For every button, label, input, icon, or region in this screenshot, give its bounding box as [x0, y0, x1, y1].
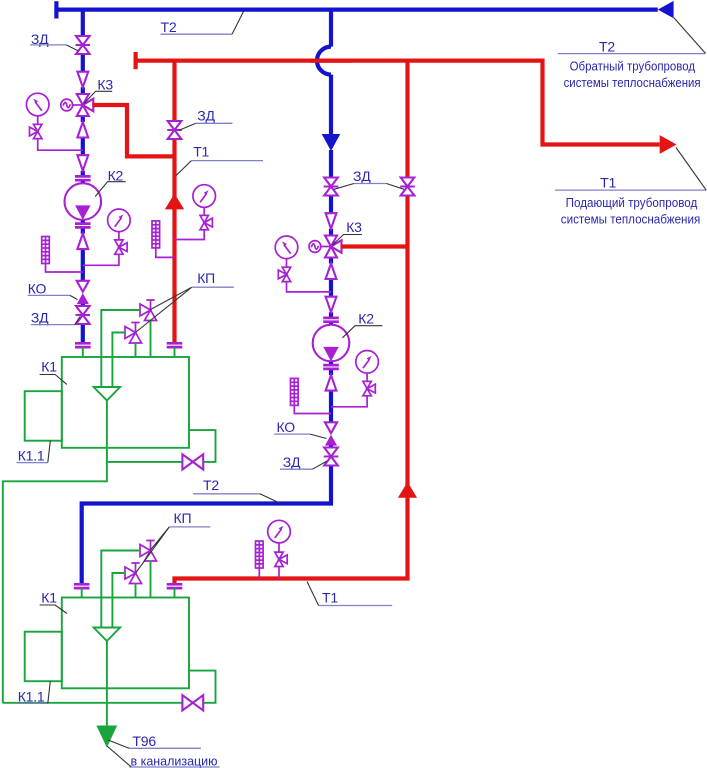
pressure gauge at K3 (left)	[26, 93, 49, 116]
KP2 discharge stub (upper)	[135, 343, 137, 357]
overflow pipe from upper tank right side	[107, 430, 216, 462]
pipe T1 main header (red)	[136, 59, 660, 145]
check valve KO (left)	[77, 281, 89, 304]
green stub below red flange into lower tank	[174, 588, 176, 598]
svg-text:К3: К3	[346, 219, 362, 235]
flange at lower tank inlet (red)	[167, 584, 183, 588]
funnel drain drop pipe (lower)	[106, 641, 108, 726]
svg-text:К1.1: К1.1	[18, 688, 45, 704]
drain valve (lower)	[182, 695, 203, 710]
thermometer on lower red line	[255, 541, 263, 568]
gauge stem (middle K3)	[286, 258, 288, 267]
gauge cock (lower red)	[275, 552, 287, 566]
green stub below red flange into upper tank	[174, 347, 176, 357]
drain funnel in upper tank	[94, 387, 121, 401]
flange below pump K2 (middle)	[323, 365, 339, 369]
thermometer at pump K2 (middle)	[291, 378, 299, 405]
KP2 discharge stub (lower)	[135, 584, 137, 598]
svg-text:ЗД: ЗД	[31, 310, 49, 326]
svg-text:Т2: Т2	[161, 19, 177, 35]
svg-text:ЗД: ЗД	[283, 454, 301, 470]
flange at upper tank inlet (red)	[167, 343, 183, 347]
KP1 inlet pipe and funnel riser (lower)	[101, 551, 140, 628]
safety valve KP no.2 (lower)	[125, 563, 142, 584]
flange above pump K2 (left)	[75, 176, 91, 180]
overflow pipe from lower tank right side	[3, 671, 216, 703]
valve ZD (gate) on red riser (middle)	[400, 178, 415, 196]
red link from K3 (middle) to red riser	[341, 244, 408, 248]
wire: middle blue riser segments	[82, 75, 333, 585]
svg-text:Т1: Т1	[193, 144, 209, 160]
electric actuator of K3 (middle)	[309, 241, 331, 253]
svg-text:Подающий трубопровод: Подающий трубопровод	[566, 195, 698, 210]
gauge stem (red riser)	[203, 207, 205, 215]
safety valve KP no.1 (lower)	[140, 541, 157, 562]
flow arrow on T2 main (points left)	[658, 1, 674, 18]
gauge cock (left pump)	[115, 240, 127, 254]
drain valve (upper)	[182, 454, 203, 469]
wire: red riser T1 segments (x=174.5)	[172, 61, 176, 344]
three-way valve K3 (middle)	[325, 236, 342, 258]
svg-text:К3: К3	[97, 76, 113, 92]
pressure gauge at pump K2 (middle)	[356, 351, 379, 374]
svg-text:К1: К1	[41, 589, 57, 605]
flow arrow up on red riser (middle)	[398, 482, 417, 498]
electric actuator of K3 (left)	[61, 99, 83, 111]
reducer cone below K3 (middle)	[326, 264, 337, 280]
impulse line from gauge to red riser	[175, 230, 205, 240]
gauge stem (middle pump)	[366, 373, 368, 382]
flange at lower tank inlet (blue)	[74, 584, 90, 588]
three-way valve K3 (left)	[77, 94, 94, 116]
svg-text:Т1: Т1	[600, 174, 616, 190]
flow arrow on T1 main (points right)	[660, 135, 677, 154]
T1 main re-stroked over crossing hop	[310, 58, 352, 62]
svg-text:КО: КО	[28, 280, 47, 296]
gauge cock (middle pump)	[363, 381, 375, 395]
svg-text:К1.1: К1.1	[18, 447, 45, 463]
green stub below blue flange into lower tank	[81, 588, 83, 598]
impulse line from K3 gauge to riser	[38, 139, 83, 151]
svg-text:Т1: Т1	[322, 590, 338, 606]
svg-text:Обратный трубопровод: Обратный трубопровод	[570, 58, 696, 73]
wire: middle blue riser from T2 main (x=331)	[329, 8, 333, 47]
tank K1 (upper)	[62, 357, 189, 448]
KP1 discharge stub (lower)	[150, 561, 152, 598]
impulse line from pump gauge to riser (middle)	[331, 396, 367, 407]
KP1 inlet pipe and funnel riser (upper)	[101, 310, 140, 387]
reducer cone above pump K2	[77, 155, 88, 171]
valve ZD (gate) on middle riser, lower	[324, 448, 339, 466]
gauge cock (red riser)	[200, 215, 212, 229]
wire: left blue riser segments (x=82.8)	[81, 8, 85, 344]
drain funnel in lower tank	[94, 628, 121, 642]
svg-text:ЗД: ЗД	[353, 168, 371, 184]
tank K1 (lower)	[62, 598, 189, 689]
crossing hop of blue riser over T1 main	[317, 47, 331, 75]
pressure gauge on red riser	[193, 185, 216, 208]
valve ZD (gate) on middle riser	[324, 178, 339, 196]
gauge stem (left K3)	[37, 116, 39, 125]
thermometer tap line (middle)	[294, 405, 331, 413]
reducer cone below K3	[77, 122, 88, 138]
gauge stem (lower red)	[278, 543, 280, 553]
KP1 discharge stub (upper)	[150, 321, 152, 358]
flange at upper tank inlet (blue)	[75, 343, 91, 347]
gauge connection to lower red line	[278, 567, 280, 579]
gauge cock (left K3)	[30, 124, 42, 138]
thermometer at pump K2 (left)	[42, 237, 50, 264]
impulse line from K3 gauge to riser (middle)	[287, 282, 332, 292]
gauge stem (left pump)	[118, 231, 120, 240]
flange above pump K2 (middle)	[323, 318, 339, 322]
reducer cone below ZD (middle)	[326, 213, 337, 229]
svg-text:в канализацию: в канализацию	[131, 754, 218, 768]
safety valve KP no.1 (upper)	[140, 300, 157, 321]
funnel drain drop pipe (upper)	[106, 401, 108, 482]
valve ZD (gate) on left riser, lower	[76, 306, 91, 324]
flow arrow down on middle blue riser	[322, 134, 341, 151]
pressure gauge on lower red line	[268, 520, 291, 543]
reducer cone above pump K2 (middle)	[326, 297, 337, 313]
svg-text:ЗД: ЗД	[197, 108, 215, 124]
green stub below blue flange into upper tank	[82, 347, 84, 357]
safety valve KP no.2 (upper)	[125, 323, 142, 344]
reducer cone below pump flange (left)	[77, 234, 88, 250]
svg-text:Т2: Т2	[203, 477, 219, 493]
reducer cone below pump flange (middle)	[326, 375, 337, 391]
wire: red riser T1 segments (x=407.5)	[175, 61, 410, 585]
gauge cock (middle K3)	[278, 267, 290, 281]
reducer cone below ZD	[77, 72, 88, 88]
drain line to left drop (upper)	[3, 481, 108, 703]
valve ZD (gate) on left riser, top	[76, 36, 91, 54]
flow arrow up on red riser	[165, 194, 184, 210]
svg-text:Т96: Т96	[132, 733, 156, 749]
end cap of T2 main	[54, 1, 58, 18]
pump K2 (middle)	[313, 325, 350, 362]
check valve KO (middle)	[325, 422, 337, 445]
end cap of T1 main	[134, 52, 138, 69]
svg-text:системы теплоснабжения: системы теплоснабжения	[564, 75, 701, 90]
red link from K3 (left) to T1 riser	[92, 105, 174, 156]
pipe T2 main header (blue)	[56, 8, 657, 12]
thermometer connection to lower red line	[258, 568, 260, 579]
thermometer on red riser	[152, 221, 160, 248]
KP2 inlet pipe and funnel riser (lower)	[112, 573, 125, 628]
flange below pump K2 (left)	[75, 224, 91, 228]
svg-text:К2: К2	[358, 311, 374, 327]
pump K2 (left)	[65, 183, 102, 220]
drain outlet arrow T96 (to sewer)	[96, 726, 117, 748]
pressure gauge at pump K2 (left)	[108, 209, 131, 232]
KP2 inlet pipe and funnel riser (upper)	[112, 333, 125, 388]
svg-text:К1: К1	[41, 358, 57, 374]
svg-text:КП: КП	[197, 270, 215, 286]
chamber K1.1 (upper)	[25, 391, 62, 441]
chamber K1.1 (lower)	[25, 632, 62, 682]
thermometer tap line (red riser)	[156, 248, 175, 258]
svg-text:КО: КО	[277, 419, 296, 435]
svg-text:системы теплоснабжения: системы теплоснабжения	[561, 212, 701, 227]
valve ZD (gate) on red riser	[167, 121, 182, 139]
svg-text:Т2: Т2	[599, 39, 615, 55]
pressure gauge at K3 (middle)	[275, 236, 298, 259]
thermometer tap line (left)	[46, 264, 83, 273]
impulse line from pump gauge to riser	[83, 254, 119, 265]
svg-text:КП: КП	[174, 510, 192, 526]
